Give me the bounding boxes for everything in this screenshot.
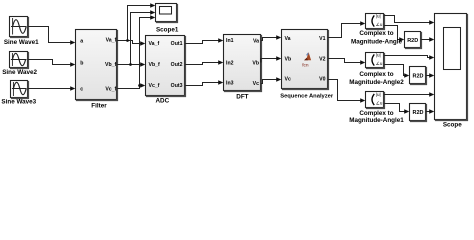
wire branch Vb_f -> Scope1 in2 xyxy=(131,13,155,65)
svg-text:Vc_f: Vc_f xyxy=(149,83,160,89)
svg-text:In1: In1 xyxy=(226,38,234,44)
complex-to-magnitude-angle block 1 xyxy=(366,14,384,29)
wire R2D2 -> Scope in4 xyxy=(426,75,433,77)
svg-text:Out1: Out1 xyxy=(171,41,183,47)
subsystem Sequence Analyzer xyxy=(282,30,328,89)
wire Sequence Analyzer V2 -> Complex2 xyxy=(328,59,364,63)
wire Complex2 angle -> R2D2 xyxy=(384,65,408,76)
scope Scope1 xyxy=(156,4,177,22)
sine icon 3 xyxy=(12,82,27,96)
wire ADC Out3 -> DFT In3 xyxy=(185,83,222,86)
subsystem ADC xyxy=(146,36,185,96)
subsystem DFT xyxy=(224,35,261,91)
svg-text:Out3: Out3 xyxy=(171,83,183,89)
wire Sine Wave2 -> Filter b xyxy=(28,60,74,65)
junction dot on Va_f wire xyxy=(126,39,129,42)
svg-text:Sine Wave1: Sine Wave1 xyxy=(4,39,39,46)
svg-text:ADC: ADC xyxy=(155,97,169,104)
svg-text:Complex to: Complex to xyxy=(359,110,393,117)
wire branch Va_f -> Scope1 in1 xyxy=(128,6,155,41)
svg-text:Sine Wave2: Sine Wave2 xyxy=(2,69,37,76)
svg-text:|u|: |u| xyxy=(376,92,381,97)
svg-text:Sequence Analyzer: Sequence Analyzer xyxy=(280,93,334,99)
svg-text:b: b xyxy=(80,60,83,66)
svg-text:Scope1: Scope1 xyxy=(156,26,179,33)
wire DFT Va -> Sequence Analyzer Va xyxy=(261,38,280,41)
scope Scope screen xyxy=(444,28,461,70)
sine wave source Sine Wave3 xyxy=(11,81,28,98)
svg-text:Vb_f: Vb_f xyxy=(149,62,161,68)
svg-text:a: a xyxy=(80,38,83,44)
svg-text:Sine Wave3: Sine Wave3 xyxy=(1,99,36,106)
R2D block 1 (radians to degrees) xyxy=(405,32,421,48)
wire Complex3 angle -> R2D3 xyxy=(384,104,408,112)
complex-to-magnitude-angle block 3 xyxy=(366,92,384,108)
wire Sequence Analyzer V0 -> Complex3 xyxy=(328,80,364,101)
svg-text:Va: Va xyxy=(285,36,291,42)
sine wave source Sine Wave2 xyxy=(10,52,28,68)
R2D block 2 (radians to degrees) xyxy=(410,67,426,84)
svg-text:∠u: ∠u xyxy=(376,22,383,27)
R2D block 3 (radians to degrees) xyxy=(410,104,426,121)
svg-text:In3: In3 xyxy=(226,81,234,87)
svg-text:Vb: Vb xyxy=(252,61,259,67)
svg-text:Va: Va xyxy=(253,38,259,44)
svg-text:∠u: ∠u xyxy=(376,61,383,66)
svg-text:Vc_f: Vc_f xyxy=(105,87,116,93)
svg-text:Va_f: Va_f xyxy=(106,38,117,44)
subsystem Filter xyxy=(76,30,117,100)
wire Sequence Analyzer V1 -> Complex1 xyxy=(328,24,364,38)
wire Complex1 |u| -> Scope in1 xyxy=(384,16,433,23)
svg-text:Scope: Scope xyxy=(443,121,462,128)
svg-text:Complex to: Complex to xyxy=(359,30,393,37)
svg-text:R2D: R2D xyxy=(412,110,423,116)
wire R2D1 -> Scope in2 xyxy=(421,39,433,41)
svg-text:c: c xyxy=(80,86,83,92)
svg-text:V0: V0 xyxy=(319,77,325,83)
junction dot on Vb_f wire xyxy=(129,63,132,66)
block drop shadows xyxy=(11,5,468,122)
wire ADC Out1 -> DFT In1 xyxy=(185,41,222,44)
MATLAB fcn icon in Sequence Analyzer xyxy=(302,52,311,68)
svg-text:Magnitude-Angle2: Magnitude-Angle2 xyxy=(349,79,404,86)
svg-text:Va_f: Va_f xyxy=(149,41,160,47)
wire Complex1 angle -> R2D1 xyxy=(384,26,403,40)
complex block 1 icon xyxy=(372,14,383,27)
complex block 2 icon xyxy=(372,53,383,66)
svg-text:Vc: Vc xyxy=(253,81,259,87)
wire branch Vc_f -> Scope1 in3 xyxy=(140,18,155,86)
svg-text:R2D: R2D xyxy=(412,74,423,80)
wire Sine Wave1 -> Filter a xyxy=(28,27,74,43)
svg-text:Vb: Vb xyxy=(285,56,292,62)
svg-text:V2: V2 xyxy=(319,56,325,62)
svg-text:|u|: |u| xyxy=(376,53,381,58)
sine icon 1 xyxy=(11,18,27,35)
svg-text:R2D: R2D xyxy=(407,38,418,44)
svg-text:Vb_f: Vb_f xyxy=(105,62,117,68)
svg-text:DFT: DFT xyxy=(236,94,248,101)
sine icon 2 xyxy=(11,53,27,66)
svg-text:fcn: fcn xyxy=(302,63,309,69)
svg-text:V1: V1 xyxy=(319,36,325,42)
svg-text:Filter: Filter xyxy=(91,102,107,109)
wire Filter Vb_f -> ADC Vb_f xyxy=(117,64,144,66)
svg-text:Magnitude-Angle1: Magnitude-Angle1 xyxy=(349,117,404,124)
scope Scope1 screen xyxy=(160,7,172,15)
wire ADC Out2 -> DFT In2 xyxy=(185,63,222,65)
wire Complex2 |u| -> Scope in3 xyxy=(384,56,433,58)
svg-text:∠u: ∠u xyxy=(376,100,383,105)
wire Complex3 |u| -> Scope in5 xyxy=(384,94,433,96)
svg-text:Magnitude-Angle: Magnitude-Angle xyxy=(351,39,403,46)
wire DFT Vb -> Sequence Analyzer Vb xyxy=(261,59,280,63)
wire Filter Va_f -> ADC Va_f xyxy=(117,41,144,44)
complex-to-magnitude-angle block 2 xyxy=(366,53,384,68)
wire DFT Vc -> Sequence Analyzer Vc xyxy=(261,80,280,84)
wire R2D3 -> Scope in6 xyxy=(426,111,433,113)
junction dot on Vc_f wire xyxy=(138,84,141,87)
svg-text:|u|: |u| xyxy=(376,14,381,19)
svg-text:In2: In2 xyxy=(226,61,234,67)
wire Sine Wave3 -> Filter c xyxy=(28,88,74,90)
sine wave source Sine Wave1 xyxy=(10,17,28,37)
svg-text:Vc: Vc xyxy=(285,77,291,83)
svg-text:Out2: Out2 xyxy=(171,62,183,68)
svg-text:Complex to: Complex to xyxy=(359,71,393,78)
scope Scope xyxy=(435,14,467,120)
complex block 3 icon xyxy=(372,92,383,105)
wire Filter Vc_f -> ADC Vc_f xyxy=(117,86,144,89)
